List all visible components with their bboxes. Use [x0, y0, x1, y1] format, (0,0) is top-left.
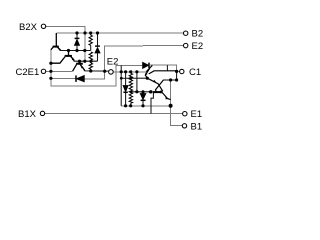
svg-text:C1: C1 [189, 67, 201, 78]
svg-text:E2: E2 [107, 56, 119, 67]
svg-text:E2: E2 [192, 41, 204, 52]
svg-text:C2E1: C2E1 [16, 67, 40, 78]
svg-text:E1: E1 [191, 109, 203, 120]
svg-text:B2: B2 [192, 29, 204, 40]
svg-text:B1: B1 [191, 121, 203, 132]
svg-text:B1X: B1X [18, 109, 37, 120]
svg-text:B2X: B2X [19, 22, 38, 33]
